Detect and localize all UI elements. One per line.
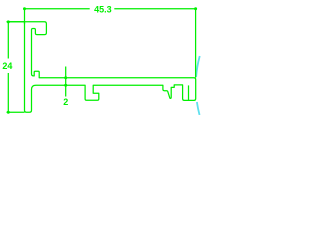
dim line 2 vertical bbox=[65, 67, 67, 97]
dot bottom end 2 bbox=[64, 84, 67, 87]
profile outline (aluminium extrusion cross-section) bbox=[7, 22, 196, 112]
dot top end 24 bbox=[7, 20, 10, 23]
svg-text:45.3: 45.3 bbox=[94, 4, 112, 14]
dot right end 45.3 bbox=[194, 7, 197, 10]
extension line top of 24 bbox=[7, 21, 25, 23]
dot bottom end 24 bbox=[7, 111, 10, 114]
extension line bottom of 24 bbox=[7, 111, 25, 113]
inner tooth separation line right block bbox=[188, 85, 190, 100]
extension line left of 45.3 bbox=[24, 9, 26, 24]
dot left end 45.3 bbox=[23, 7, 26, 10]
dim line 45.3 horizontal bbox=[25, 8, 196, 10]
dot top end 2 bbox=[64, 76, 67, 79]
svg-text:24: 24 bbox=[2, 61, 12, 71]
detail circle (cyan arc at right edge) bbox=[196, 56, 200, 115]
extension line right of 45.3 bbox=[195, 9, 197, 78]
svg-text:2: 2 bbox=[63, 97, 68, 107]
dim line 24 vertical bbox=[7, 22, 9, 112]
